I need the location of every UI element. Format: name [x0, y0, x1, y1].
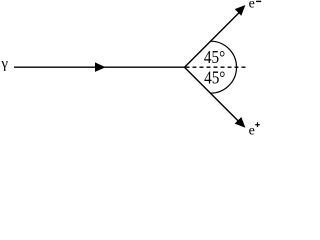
svg-text:e: e: [249, 124, 255, 136]
wire positron line (down-right 45 deg): [185, 67, 241, 123]
arrowhead on gamma line: [95, 62, 106, 72]
svg-text:45°: 45°: [204, 68, 225, 88]
wire electron line (up-right 45 deg): [185, 11, 241, 67]
superscript plus: [255, 124, 260, 126]
wire gamma ray line: [14, 66, 185, 68]
arrowhead electron: [235, 5, 246, 16]
svg-text:γ: γ: [0, 56, 8, 72]
arrowhead positron: [235, 117, 246, 128]
angle arc: [211, 41, 237, 93]
superscript minus: [256, 0, 261, 2]
svg-text:e: e: [249, 0, 255, 12]
wire dashed reference line: [186, 66, 246, 68]
svg-text:45°: 45°: [204, 47, 225, 67]
